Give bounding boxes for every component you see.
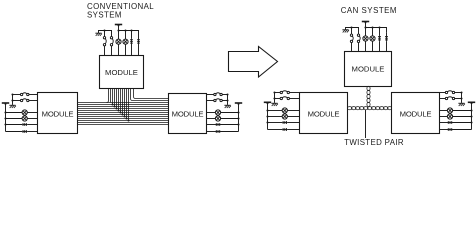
component bank left of module U2 bbox=[0, 0, 1, 1]
junction dot B ground rail row1 bbox=[226, 93, 228, 95]
junction dot C feed row5 bbox=[266, 121, 268, 123]
svg-text:TWISTED PAIR: TWISTED PAIR bbox=[344, 138, 404, 147]
wire C lamp row3 bbox=[268, 110, 300, 112]
twisted pair vertical drop (CAN bus) bbox=[367, 86, 370, 106]
harness wire W5 horizontal run bbox=[78, 110, 169, 112]
wire C coil row5 bbox=[268, 121, 300, 124]
junction dot harness W10 bbox=[126, 118, 128, 120]
switch SW4 bbox=[357, 34, 360, 43]
junction dot C feed row3 bbox=[266, 109, 268, 111]
svg-text:CAN SYSTEM: CAN SYSTEM bbox=[341, 6, 397, 15]
lamp E3 bbox=[363, 36, 368, 41]
lamp AE2 bbox=[22, 116, 27, 121]
svg-text:SYSTEM: SYSTEM bbox=[87, 11, 122, 20]
wire C lamp row4 bbox=[268, 116, 300, 118]
junction dot B feed row4 bbox=[237, 117, 239, 119]
wire A switch row2 to ground rail bbox=[13, 100, 21, 102]
wire C coil row6 bbox=[268, 128, 300, 131]
junction dot switch SW3 on ground bus bbox=[350, 26, 352, 28]
lamp DE1 bbox=[447, 108, 452, 113]
battery feed B+ (CAN top) bbox=[362, 21, 369, 27]
wire coil K2 to module bbox=[138, 45, 140, 56]
leader line to TWISTED PAIR label bbox=[365, 110, 367, 138]
module U5 (CAN left) bbox=[300, 93, 348, 134]
harness wire W10 vertical drop bbox=[126, 89, 128, 119]
wire coil K3 drop bbox=[379, 28, 381, 36]
ground rail vertical (B) bbox=[227, 95, 229, 105]
wire C switch row1 to ground rail bbox=[275, 92, 281, 94]
lamp E1 bbox=[116, 39, 121, 44]
switch CS1 bbox=[280, 91, 289, 94]
wire SW1 to module bbox=[104, 46, 106, 56]
harness wire W7 horizontal run bbox=[78, 114, 169, 116]
title CAN SYSTEM bbox=[341, 6, 397, 15]
wire D switch row1 to ground rail bbox=[454, 92, 461, 94]
wire A coil row6 bbox=[6, 130, 38, 133]
wire SW2 to module bbox=[111, 46, 113, 56]
wire SW4 to module bbox=[358, 43, 360, 52]
wire coil K1 drop bbox=[131, 31, 133, 39]
harness wire W8 horizontal run bbox=[78, 116, 169, 118]
lamp BE1 bbox=[215, 110, 220, 115]
wire B switch row2 module side bbox=[207, 100, 215, 102]
wire D switch row2 module side bbox=[440, 98, 446, 100]
wire D coil row6 bbox=[440, 128, 472, 131]
wire A switch row2 module side bbox=[29, 100, 38, 102]
junction dot A ground rail row2 bbox=[11, 99, 13, 101]
wire C switch row1 module side bbox=[289, 92, 299, 94]
switch SW1 bbox=[103, 37, 106, 46]
harness wire W5 vertical drop bbox=[116, 89, 118, 109]
harness wire W6 horizontal run bbox=[78, 112, 169, 114]
twisted pair horizontal run (CAN bus) bbox=[347, 107, 392, 110]
wire lamp E1 drop bbox=[118, 31, 120, 40]
junction dot A feed row3 bbox=[4, 111, 6, 113]
power bus (conventional top) bbox=[119, 31, 139, 36]
wire D lamp row3 bbox=[440, 110, 472, 112]
component bank left of module U5 bbox=[0, 0, 1, 1]
harness wire W8 vertical drop bbox=[122, 89, 124, 115]
coil K1 bbox=[130, 39, 133, 45]
harness wire W12 vertical with elbow to right bbox=[131, 89, 169, 101]
harness wire W0 vertical with elbow to left bbox=[107, 89, 109, 103]
ground symbol (top-left of CAN top module) bbox=[342, 28, 349, 33]
component bank right of module U6 bbox=[0, 0, 1, 1]
wire A lamp row4 bbox=[6, 118, 38, 120]
coil K4 bbox=[385, 32, 388, 42]
lamp BE2 bbox=[215, 116, 220, 121]
wire coil K4 to module bbox=[386, 42, 388, 52]
wire B coil row5 bbox=[207, 123, 239, 126]
junction dot harness W5 bbox=[116, 108, 118, 110]
switch DS2 bbox=[445, 97, 454, 100]
power bus (CAN top) bbox=[366, 28, 387, 33]
harness wire W9 vertical drop bbox=[124, 89, 126, 117]
wire B switch row1 module side bbox=[207, 94, 215, 96]
junction dot coil K3 on power bus bbox=[378, 26, 380, 28]
wire A switch row1 module side bbox=[29, 94, 38, 96]
junction dot A ground rail row1 bbox=[11, 93, 13, 95]
wire lamp E1 to module bbox=[118, 44, 120, 55]
module U2 (conventional left) bbox=[38, 93, 78, 134]
junction dot switch SW1 on ground bus bbox=[103, 29, 105, 31]
harness wire W11 vertical drop bbox=[128, 89, 130, 121]
switch CS2 bbox=[280, 97, 289, 100]
wire A switch row1 to ground rail bbox=[13, 94, 21, 96]
junction dot D feed row3 bbox=[470, 109, 472, 111]
block arrow conventional-to-CAN bbox=[229, 47, 278, 78]
junction dot C ground rail row1 bbox=[273, 91, 275, 93]
junction dot A feed row5 bbox=[4, 123, 6, 125]
lamp E4 bbox=[370, 36, 375, 41]
wire coil K3 to module bbox=[379, 42, 381, 52]
wire D lamp row4 bbox=[440, 116, 472, 118]
harness wire W11 horizontal run bbox=[78, 122, 169, 124]
battery feed B+ (C) bbox=[264, 102, 271, 129]
harness wire W10 horizontal run bbox=[78, 120, 169, 122]
lamp CE1 bbox=[282, 108, 287, 113]
battery feed B+ (A) bbox=[2, 103, 9, 132]
ground rail vertical (A) bbox=[12, 95, 14, 105]
svg-text:MODULE: MODULE bbox=[42, 109, 74, 118]
harness wire W1 horizontal run bbox=[78, 102, 169, 104]
junction dot harness W4 bbox=[114, 106, 116, 108]
switch SW2 bbox=[110, 37, 113, 46]
wire lamp E4 to module bbox=[372, 41, 374, 52]
junction dot D feed row5 bbox=[470, 121, 472, 123]
switch AS1 bbox=[20, 93, 28, 96]
junction dot D ground rail row2 bbox=[460, 97, 462, 99]
label TWISTED PAIR bbox=[344, 138, 404, 147]
switch DS1 bbox=[445, 91, 454, 94]
ground bus wire to switches (CAN) bbox=[345, 28, 358, 35]
lamp DE2 bbox=[447, 114, 452, 119]
junction dot lamp E4 on power bus bbox=[371, 26, 373, 28]
wire B switch row1 to ground rail bbox=[222, 94, 228, 96]
svg-text:MODULE: MODULE bbox=[352, 65, 385, 74]
wire lamp E4 drop bbox=[372, 28, 374, 37]
switch SW3 bbox=[350, 34, 353, 43]
module U6 (CAN right) bbox=[392, 93, 440, 134]
battery feed B+ (conventional top) bbox=[115, 24, 122, 30]
wire A lamp row3 bbox=[6, 112, 38, 114]
wire lamp E2 to module bbox=[125, 44, 127, 55]
junction dot coil K1 on power bus bbox=[130, 29, 132, 31]
wire SW3 drop bbox=[351, 28, 353, 35]
module U1 (conventional top) bbox=[100, 56, 144, 89]
title CONVENTIONAL SYSTEM bbox=[87, 2, 154, 20]
harness wire W13 vertical with elbow to right bbox=[134, 89, 169, 99]
harness wire W4 horizontal run bbox=[78, 108, 169, 110]
junction dot B feed row5 bbox=[237, 123, 239, 125]
ground symbol (A) bbox=[9, 105, 16, 108]
wire A coil row5 bbox=[6, 123, 38, 126]
ground symbol (B) bbox=[224, 105, 231, 108]
junction dot C feed row4 bbox=[266, 115, 268, 117]
harness wire W12 horizontal run bbox=[78, 124, 169, 126]
junction dot B ground rail row2 bbox=[226, 99, 228, 101]
wire B coil row6 bbox=[207, 130, 239, 133]
svg-text:MODULE: MODULE bbox=[400, 109, 432, 118]
harness wire W2 vertical drop bbox=[110, 89, 112, 103]
wire lamp E2 drop bbox=[125, 31, 127, 40]
ground symbol (D) bbox=[458, 103, 465, 106]
wire D switch row2 to ground rail bbox=[454, 98, 461, 100]
harness wire W7 vertical drop bbox=[120, 89, 122, 113]
harness wire W2 horizontal run bbox=[78, 104, 169, 106]
module U4 (CAN top) bbox=[345, 52, 392, 87]
battery feed B+ (D) bbox=[468, 102, 475, 129]
lamp E2 bbox=[123, 39, 128, 44]
ground rail vertical (D) bbox=[461, 93, 463, 103]
ground rail vertical (C) bbox=[274, 93, 276, 103]
coil K2 bbox=[137, 36, 140, 46]
wire B lamp row3 bbox=[207, 112, 239, 114]
switch AS2 bbox=[20, 99, 28, 102]
switch BS2 bbox=[214, 99, 223, 102]
junction dot harness W7 bbox=[120, 112, 122, 114]
svg-text:MODULE: MODULE bbox=[308, 109, 340, 118]
harness wire W3 vertical drop bbox=[112, 89, 114, 105]
wire D coil row5 bbox=[440, 121, 472, 124]
junction dot harness W9 bbox=[124, 116, 126, 118]
module U3 (conventional right) bbox=[169, 94, 207, 134]
svg-text:MODULE: MODULE bbox=[105, 68, 138, 77]
junction dot harness W8 bbox=[122, 114, 124, 116]
harness wire W9 horizontal run bbox=[78, 118, 169, 120]
junction dot D feed row4 bbox=[470, 115, 472, 117]
ground bus wire to switches bbox=[98, 31, 112, 38]
lamp AE1 bbox=[22, 110, 27, 115]
junction dot lamp E3 on power bus bbox=[364, 26, 366, 28]
component bank right of module U3 bbox=[0, 0, 1, 1]
lamp CE2 bbox=[282, 114, 287, 119]
wire C switch row2 module side bbox=[289, 98, 299, 100]
junction dot harness W11 bbox=[128, 120, 130, 122]
battery feed B+ (B) bbox=[235, 103, 242, 132]
junction dot harness W3 bbox=[112, 104, 114, 106]
junction dot B feed row3 bbox=[237, 111, 239, 113]
ground symbol (C) bbox=[271, 103, 278, 106]
junction dot A feed row4 bbox=[4, 117, 6, 119]
junction dot D ground rail row1 bbox=[460, 91, 462, 93]
wire B switch row2 to ground rail bbox=[222, 100, 228, 102]
wire lamp E3 drop bbox=[365, 28, 367, 37]
wire coil K1 to module bbox=[131, 45, 133, 56]
coil K3 bbox=[378, 36, 381, 42]
junction dot C ground rail row2 bbox=[273, 97, 275, 99]
wire lamp E3 to module bbox=[365, 41, 367, 52]
junction dot harness W6 bbox=[118, 110, 120, 112]
wire SW3 to module bbox=[351, 43, 353, 52]
junction dot lamp E2 on power bus bbox=[124, 29, 126, 31]
svg-text:MODULE: MODULE bbox=[172, 109, 204, 118]
wire B lamp row4 bbox=[207, 118, 239, 120]
junction dot lamp E1 on power bus bbox=[117, 29, 119, 31]
wire C switch row2 to ground rail bbox=[275, 98, 281, 100]
wire D switch row1 module side bbox=[440, 92, 446, 94]
ground symbol (top-left of conventional top module) bbox=[95, 31, 102, 36]
wire SW1 drop from bus bbox=[104, 31, 106, 38]
harness wire W6 vertical drop bbox=[118, 89, 120, 111]
harness wire W4 vertical drop bbox=[114, 89, 116, 107]
svg-text:CONVENTIONAL: CONVENTIONAL bbox=[87, 2, 154, 11]
harness wire W3 horizontal run bbox=[78, 106, 169, 108]
switch BS1 bbox=[214, 93, 223, 96]
